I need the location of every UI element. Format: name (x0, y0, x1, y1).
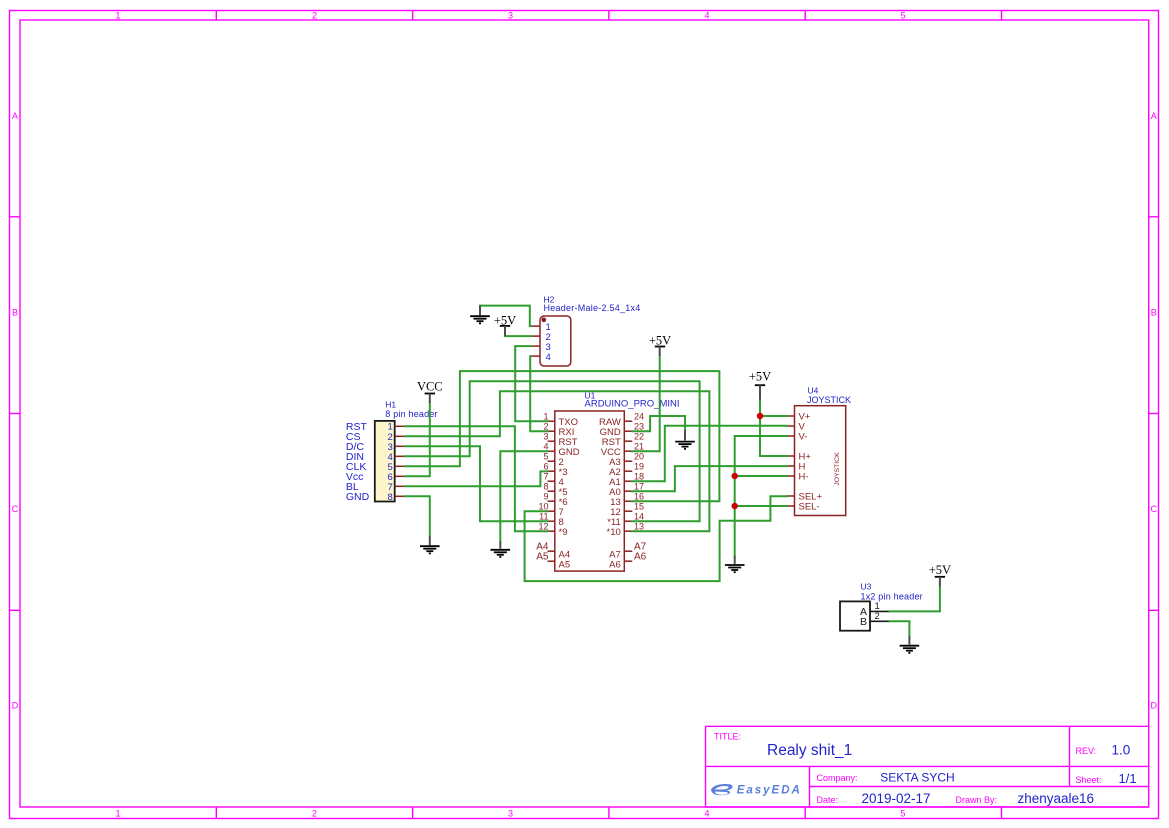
svg-text:8: 8 (388, 492, 393, 503)
U4 pin names (799, 412, 823, 513)
wire U4.V- to ground (735, 436, 787, 556)
svg-text:4: 4 (704, 809, 709, 819)
svg-text:3: 3 (508, 809, 513, 819)
H1 net labels (346, 421, 370, 503)
wire U3.2 to ground (890, 621, 910, 636)
power +5V (U3) (929, 563, 951, 586)
svg-text:+5V: +5V (929, 563, 951, 577)
svg-text:19: 19 (634, 462, 644, 472)
svg-text:22: 22 (634, 432, 644, 442)
wire +5V to H2.2 (505, 335, 531, 337)
svg-text:+5V: +5V (649, 333, 671, 347)
svg-text:Realy shit_1: Realy shit_1 (767, 742, 852, 759)
svg-text:ARDUINO_PRO_MINI: ARDUINO_PRO_MINI (585, 399, 680, 410)
svg-text:15: 15 (634, 502, 644, 512)
ground (U3.2) (900, 636, 920, 653)
ground (U1.4) (491, 541, 511, 557)
wire U1.4 GND to ground (500, 451, 547, 541)
svg-text:JOYSTICK: JOYSTICK (834, 452, 841, 486)
wire RST: H1.1 to U1.12 (405, 426, 548, 531)
svg-text:D: D (1151, 701, 1158, 711)
IC U1 ARDUINO_PRO_MINI (555, 390, 680, 571)
svg-text:VCC: VCC (417, 380, 443, 394)
svg-text:1.0: 1.0 (1112, 743, 1131, 758)
svg-text:A5: A5 (559, 559, 571, 570)
svg-text:2: 2 (875, 611, 880, 622)
svg-text:1: 1 (115, 809, 120, 819)
H1 pin stubs (395, 426, 405, 496)
svg-text:3: 3 (543, 432, 548, 442)
junction dot U4.SEL- (732, 503, 738, 509)
power +5V (U4) (749, 369, 771, 399)
svg-text:Date:: Date: (817, 795, 839, 805)
svg-text:4: 4 (704, 11, 709, 21)
svg-text:U3: U3 (861, 581, 872, 591)
U1 right pin stubs (624, 421, 632, 561)
connector U3 1x2 pin header (840, 581, 923, 630)
svg-text:2: 2 (312, 11, 317, 21)
svg-text:Company:: Company: (817, 773, 858, 783)
svg-text:2019-02-17: 2019-02-17 (862, 791, 931, 806)
wire +5V to U4.V+ and U4.H+ (760, 399, 787, 456)
svg-text:H1: H1 (385, 400, 396, 410)
wire U1.17 A0 to U4.H (632, 466, 786, 491)
H2 pin stubs (531, 326, 540, 356)
wire U1.23 GND to ground (632, 416, 685, 431)
svg-text:5: 5 (900, 809, 905, 819)
svg-text:SEL-: SEL- (799, 502, 820, 513)
U1 left pin stubs (548, 421, 555, 561)
U4 pin stubs (787, 416, 795, 506)
wire VCC: H1.6 to VCC power (405, 403, 430, 477)
wire CLK: H1.5 to U1.16 (405, 371, 720, 501)
EasyEDA logo (711, 784, 802, 797)
wire GND: H2.1 to ground (480, 306, 531, 327)
ground (U1.23) (675, 431, 695, 449)
svg-text:H-: H- (799, 472, 809, 483)
svg-text:A: A (12, 111, 18, 121)
svg-text:+5V: +5V (749, 369, 771, 383)
svg-text:2: 2 (312, 809, 317, 819)
svg-text:6: 6 (543, 462, 548, 472)
svg-text:U4: U4 (808, 385, 819, 395)
svg-text:1x2 pin header: 1x2 pin header (861, 591, 923, 601)
connector H1 8 pin header (375, 400, 438, 502)
title block (706, 726, 1149, 807)
svg-text:A5: A5 (536, 552, 549, 563)
power +5V (H2) (494, 314, 516, 337)
svg-text:C: C (1151, 504, 1158, 514)
svg-text:B: B (1151, 308, 1157, 318)
svg-text:C: C (12, 504, 19, 514)
svg-text:JOYSTICK: JOYSTICK (807, 395, 851, 405)
U1 left pin names (559, 417, 580, 571)
ground (H2.1) (470, 306, 490, 324)
svg-text:3: 3 (508, 11, 513, 21)
wire H2.3 to U1.1 TXO (515, 346, 547, 421)
U1 left pin numbers (536, 412, 549, 563)
power +5V (U1) (649, 333, 671, 356)
wire H2.4 to U1.2 RXI (530, 356, 547, 431)
ground (H1.8) (420, 536, 440, 554)
svg-text:B: B (12, 308, 18, 318)
H1 pin numbers (388, 422, 393, 503)
wire U4.SEL- to ground net (735, 505, 787, 507)
wire BL: H1.7 to U1.6 (405, 471, 548, 486)
svg-text:7: 7 (543, 472, 548, 482)
U3 pin stubs (870, 601, 890, 622)
svg-text:V-: V- (799, 432, 808, 443)
svg-text:GND: GND (346, 491, 370, 503)
svg-text:Header-Male-2.54_1x4: Header-Male-2.54_1x4 (544, 303, 641, 313)
U1 right pin numbers (634, 412, 647, 563)
svg-text:SEKTA SYCH: SEKTA SYCH (880, 771, 954, 785)
svg-text:Drawn By:: Drawn By: (956, 795, 998, 805)
wire U3.1 to +5V (890, 586, 940, 611)
svg-text:1: 1 (115, 11, 120, 21)
svg-text:A: A (1151, 111, 1157, 121)
svg-text:TITLE:: TITLE: (714, 732, 741, 742)
svg-text:5: 5 (900, 11, 905, 21)
connector H2 Header-Male-2.54_1x4 (540, 295, 641, 367)
svg-text:B: B (860, 616, 867, 628)
junction dot U4.H- (732, 473, 738, 479)
wire U1.10 to U4.SEL+ (525, 496, 787, 581)
svg-text:A6: A6 (634, 552, 647, 563)
svg-text:9: 9 (543, 492, 548, 502)
ground (U4) (725, 556, 745, 572)
wire U4.H- to ground net (735, 475, 787, 477)
wire U1.18 A1 to U4.V (632, 426, 786, 481)
svg-text:REV:: REV: (1076, 746, 1097, 756)
wire CS: H1.2 to U1.13 (405, 391, 710, 531)
svg-text:*10: *10 (607, 527, 621, 538)
svg-text:8: 8 (543, 482, 548, 492)
wire +5V to U1.21 VCC (632, 356, 659, 452)
module U4 JOYSTICK (795, 385, 852, 515)
U1 right pin names (599, 417, 621, 571)
svg-text:zhenyaale16: zhenyaale16 (1018, 791, 1095, 806)
wire D/C: H1.3 to U1.11 (405, 446, 548, 521)
power VCC (H1) (417, 380, 443, 403)
svg-text:1/1: 1/1 (1119, 771, 1137, 786)
junction dot +5V/U4.V+ (757, 413, 763, 419)
wire GND: H1.8 to ground (405, 496, 430, 536)
svg-text:D: D (12, 701, 19, 711)
svg-text:4: 4 (546, 352, 551, 363)
wire DIN: H1.4 to U1.14 (405, 381, 700, 521)
svg-text:24: 24 (634, 412, 644, 422)
svg-text:20: 20 (634, 452, 644, 462)
svg-text:Sheet:: Sheet: (1076, 775, 1102, 785)
H2 pin numbers (546, 322, 551, 363)
svg-text:*9: *9 (559, 527, 568, 538)
svg-text:5: 5 (543, 452, 548, 462)
svg-text:EasyEDA: EasyEDA (737, 785, 802, 797)
svg-text:A6: A6 (609, 559, 621, 570)
